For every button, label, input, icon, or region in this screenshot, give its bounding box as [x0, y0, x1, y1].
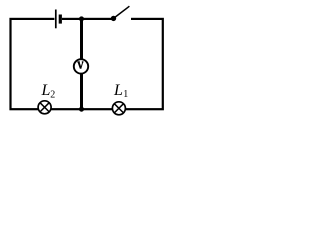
battery positive plate (long) — [55, 10, 57, 29]
lamp L2 cross stroke 2 — [40, 103, 49, 112]
lamp L2 body circle — [38, 101, 51, 114]
wire: outer circuit loop — [11, 19, 163, 109]
svg-text:L: L — [113, 82, 123, 99]
lamp L1 body circle — [112, 102, 125, 115]
switch S pivot dot — [111, 16, 116, 21]
lamp L1 cross stroke 2 — [114, 104, 123, 113]
lamp L2 cross stroke 1 — [40, 103, 49, 112]
switch gap whiteout — [115, 17, 132, 22]
svg-text:2: 2 — [50, 90, 55, 101]
voltmeter V body circle — [74, 59, 88, 73]
node: bottom junction dot — [79, 107, 84, 112]
lamp L1 cross stroke 1 — [114, 104, 123, 113]
battery negative plate (short thick) — [59, 15, 62, 24]
svg-text:1: 1 — [123, 89, 128, 100]
switch S lever arm — [114, 6, 130, 18]
battery cell gap whiteout — [54, 16, 62, 21]
voltmeter V letter — [77, 62, 83, 69]
node: top junction dot — [79, 16, 84, 21]
wire: middle vertical branch — [80, 19, 83, 109]
svg-text:L: L — [41, 82, 51, 99]
